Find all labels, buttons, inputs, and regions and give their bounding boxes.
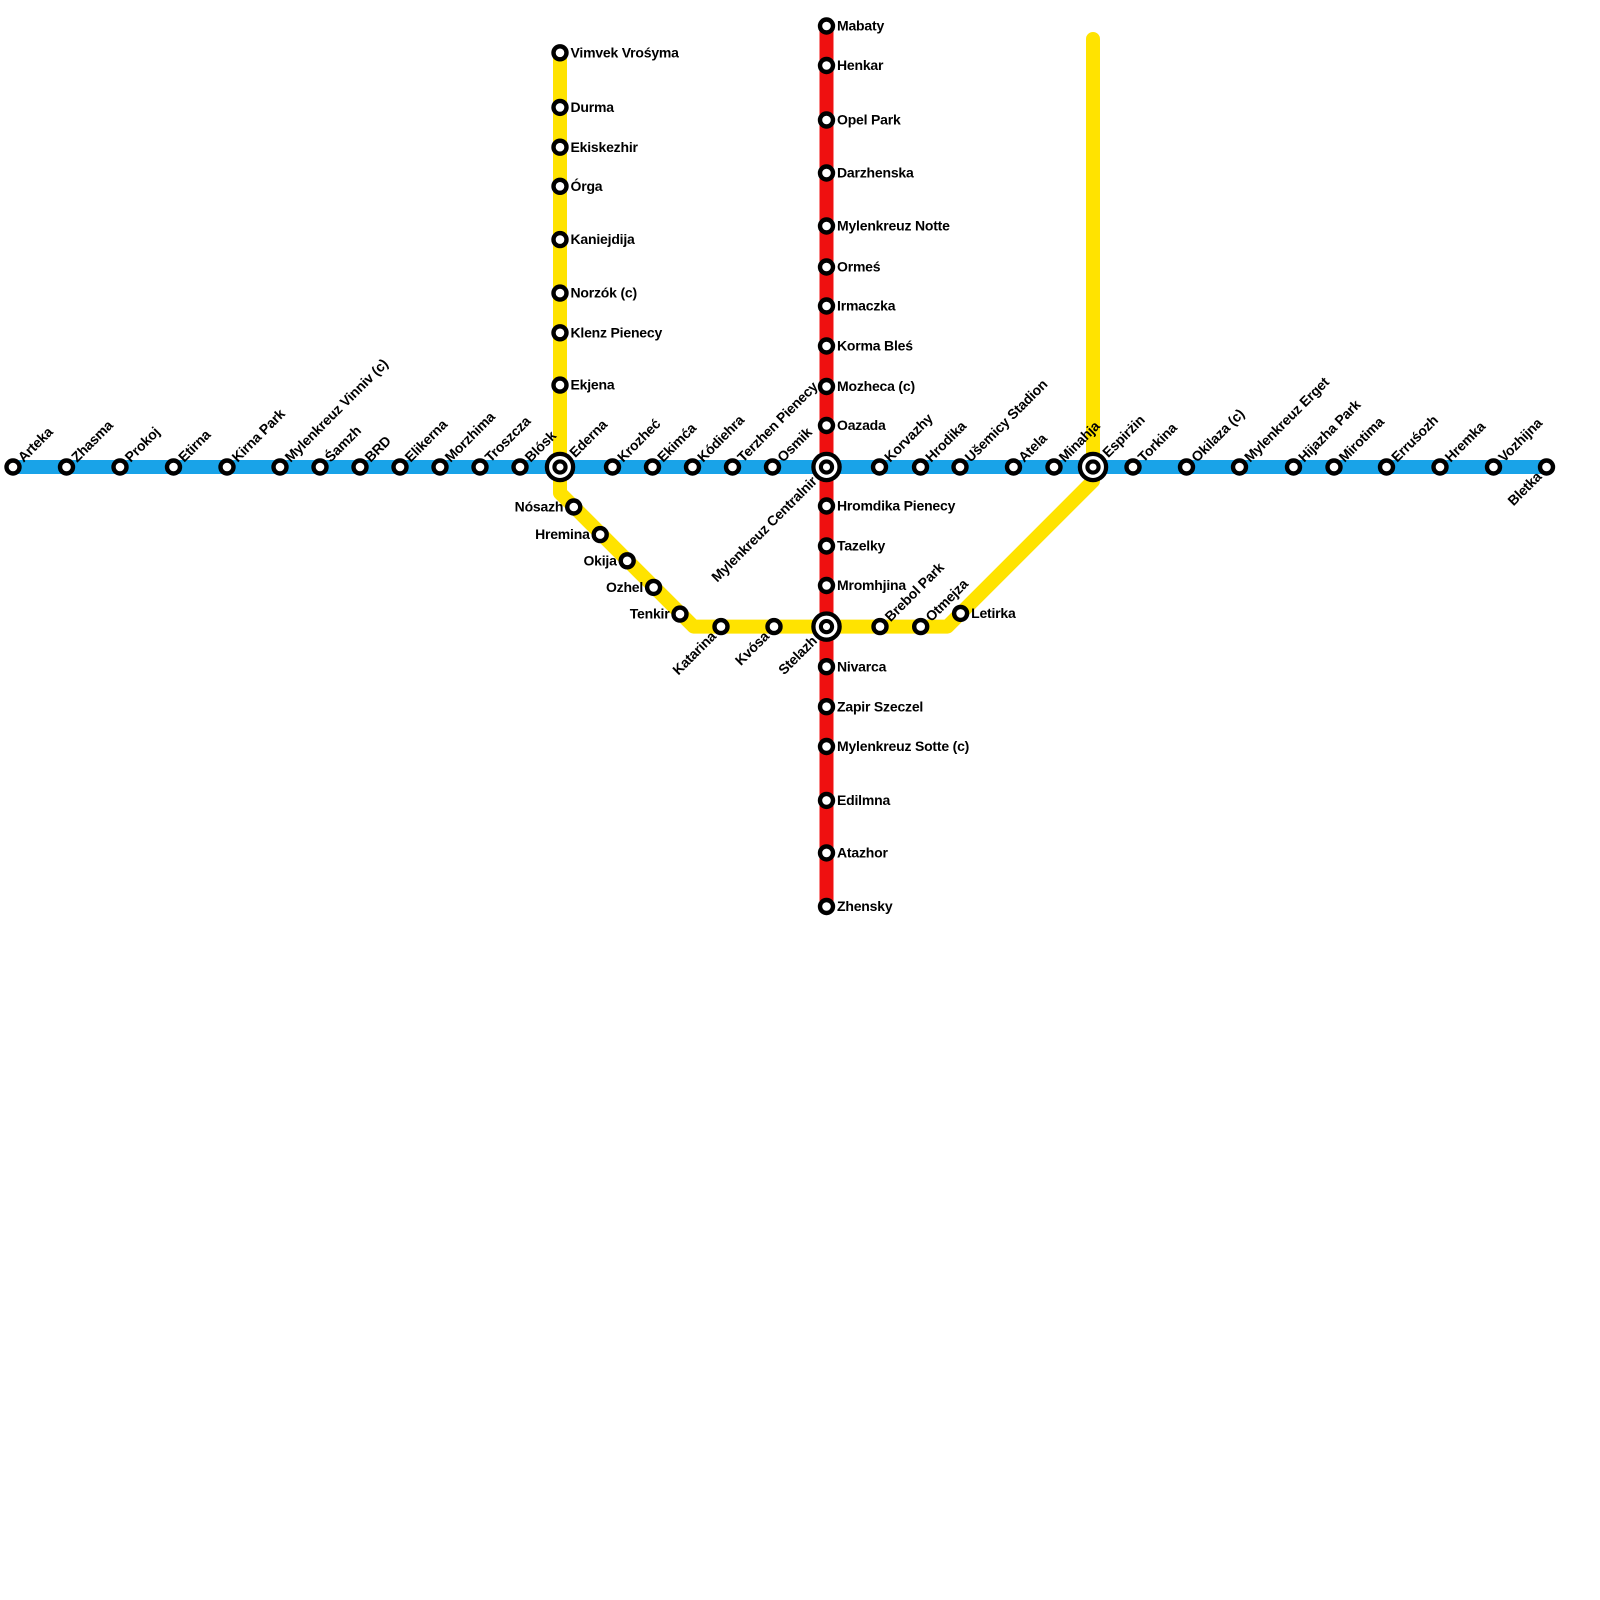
svg-text:Klenz Pienecy: Klenz Pienecy: [571, 324, 663, 340]
svg-text:Irmaczka: Irmaczka: [837, 298, 896, 314]
svg-text:Ormeś: Ormeś: [837, 259, 881, 275]
svg-text:Oazada: Oazada: [837, 417, 886, 433]
svg-text:Nivarca: Nivarca: [837, 658, 887, 674]
svg-text:Nósazh: Nósazh: [515, 499, 564, 515]
svg-text:Darzhenska: Darzhenska: [837, 165, 914, 181]
svg-text:Mromhjina: Mromhjina: [837, 577, 906, 593]
svg-text:Mozheca (c): Mozheca (c): [837, 378, 915, 394]
svg-text:Zapir Szeczel: Zapir Szeczel: [837, 698, 923, 714]
svg-text:Vimvek Vrośyma: Vimvek Vrośyma: [571, 44, 680, 60]
svg-text:Edilmna: Edilmna: [837, 792, 890, 808]
svg-text:Durma: Durma: [571, 99, 615, 115]
svg-text:Hromdika Pienecy: Hromdika Pienecy: [837, 498, 956, 514]
svg-text:Mylenkreuz Notte: Mylenkreuz Notte: [837, 218, 950, 234]
svg-text:Opel Park: Opel Park: [837, 112, 901, 128]
svg-text:Órga: Órga: [571, 177, 603, 194]
svg-text:Henkar: Henkar: [837, 57, 884, 73]
svg-text:Ekjena: Ekjena: [571, 377, 615, 393]
svg-text:Ekiskezhir: Ekiskezhir: [571, 139, 639, 155]
svg-text:Atazhor: Atazhor: [837, 845, 888, 861]
svg-text:Mabaty: Mabaty: [837, 18, 884, 34]
svg-text:Ozhel: Ozhel: [606, 579, 643, 595]
svg-text:Letirka: Letirka: [971, 605, 1016, 621]
svg-text:Tenkir: Tenkir: [630, 606, 671, 622]
svg-text:Korma Bleś: Korma Bleś: [837, 338, 913, 354]
svg-text:Tazelky: Tazelky: [837, 538, 886, 554]
svg-text:Hremina: Hremina: [535, 526, 590, 542]
svg-text:Kaniejdija: Kaniejdija: [571, 231, 636, 247]
svg-text:Norzók (c): Norzók (c): [571, 285, 637, 301]
svg-text:Mylenkreuz Sotte (c): Mylenkreuz Sotte (c): [837, 738, 969, 754]
svg-text:Okija: Okija: [583, 552, 617, 568]
svg-text:Zhensky: Zhensky: [837, 898, 893, 914]
